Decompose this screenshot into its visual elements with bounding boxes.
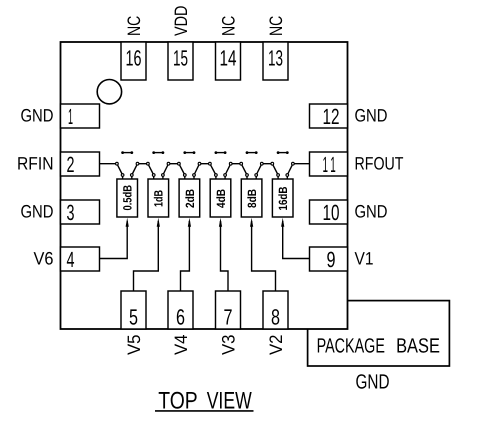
svg-text:15: 15 xyxy=(173,46,188,71)
svg-text:8dB: 8dB xyxy=(245,189,259,208)
package base label xyxy=(317,335,440,358)
node input pole stage 3 xyxy=(178,162,181,165)
switch arm output stage 4 xyxy=(225,164,231,175)
pin 4 xyxy=(61,247,100,272)
node input pole stage 4 xyxy=(209,162,212,165)
pin 15 xyxy=(168,42,193,80)
svg-text:10: 10 xyxy=(323,200,340,225)
node 0.5dB block input terminal xyxy=(121,174,124,177)
arrow into 0.5dB block xyxy=(126,218,129,227)
bypass contact dot left stage 3 xyxy=(183,151,186,154)
bypass line stage 1 xyxy=(123,152,132,154)
wire node L to RFOUT pin11 xyxy=(293,163,310,165)
pin 12 xyxy=(310,104,348,129)
svg-text:14: 14 xyxy=(220,46,237,71)
node output pole stage 4 xyxy=(229,162,232,165)
attenuator block A6 xyxy=(272,179,293,217)
node 4dB block output terminal xyxy=(224,174,227,177)
wire node H to node I xyxy=(231,163,242,165)
node 0.5dB block output terminal xyxy=(130,174,133,177)
wire stub to 16dB block input xyxy=(277,175,279,179)
TOP VIEW title xyxy=(158,387,252,414)
wire stub to 0.5dB block input xyxy=(122,175,124,179)
bypass contact dot left stage 5 xyxy=(246,151,249,154)
bypass contact dot left stage 2 xyxy=(152,151,155,154)
bypass contact dot left stage 4 xyxy=(215,151,218,154)
bypass line stage 2 xyxy=(154,152,163,154)
attenuator stage 16dB (switches + block A6) xyxy=(271,151,294,217)
svg-text:7: 7 xyxy=(224,305,233,330)
node 16dB block output terminal xyxy=(286,174,289,177)
wire stub to 1dB block output xyxy=(162,175,164,179)
wire stub to 2dB block input xyxy=(184,175,186,179)
svg-text:1dB: 1dB xyxy=(152,190,166,207)
pin 6 xyxy=(168,291,193,330)
switch arm input stage 4 xyxy=(210,164,216,175)
pin 11 xyxy=(310,152,348,177)
attenuator block A2 xyxy=(148,179,169,217)
svg-text:16: 16 xyxy=(126,46,142,71)
bypass contact dot left stage 6 xyxy=(277,151,280,154)
pin 13 xyxy=(263,42,288,80)
node 16dB block input terminal xyxy=(277,174,280,177)
arrow into 16dB block xyxy=(281,218,284,227)
svg-text:0.5dB: 0.5dB xyxy=(121,185,135,211)
svg-text:V4: V4 xyxy=(171,335,191,356)
wire stub to 1dB block input xyxy=(153,175,155,179)
switch arm input stage 6 xyxy=(272,164,278,175)
svg-text:2: 2 xyxy=(67,152,75,177)
node input pole stage 6 xyxy=(271,162,274,165)
attenuator stage 8dB (switches + block A5) xyxy=(240,151,263,217)
attenuator block A3 xyxy=(179,179,200,217)
svg-text:6: 6 xyxy=(176,305,185,330)
attenuator block A4 xyxy=(210,179,231,217)
svg-text:V5: V5 xyxy=(124,335,144,356)
svg-text:V6: V6 xyxy=(34,249,54,269)
arrow into 8dB block xyxy=(250,218,253,227)
node 8dB block input terminal xyxy=(246,174,249,177)
svg-text:RFOUT: RFOUT xyxy=(355,154,404,174)
pin 1 xyxy=(61,104,100,129)
wire stub to 0.5dB block output xyxy=(131,175,133,179)
svg-text:GND: GND xyxy=(21,106,54,126)
bypass contact dot left stage 1 xyxy=(121,151,124,154)
pin 16 xyxy=(121,42,146,80)
switch arm output stage 1 xyxy=(132,164,138,175)
switch arm input stage 5 xyxy=(241,164,247,175)
arrow into 2dB block xyxy=(188,218,191,227)
svg-text:NC: NC xyxy=(219,16,239,36)
bypass line stage 5 xyxy=(247,152,256,154)
attenuator stage 1dB (switches + block A2) xyxy=(147,151,170,217)
switch arm input stage 1 xyxy=(117,164,123,175)
wire node J to node K xyxy=(262,163,273,165)
wire V4 pin6 to 2dB block xyxy=(181,221,190,291)
node 1dB block input terminal xyxy=(152,174,155,177)
wire node D to node E xyxy=(169,163,179,165)
wire V5 pin5 to 1dB block xyxy=(134,221,159,291)
svg-text:1: 1 xyxy=(323,152,329,177)
arrow into 4dB block xyxy=(219,218,222,227)
wire stub to 4dB block input xyxy=(215,175,217,179)
svg-text:GND: GND xyxy=(355,106,388,126)
svg-text:2dB: 2dB xyxy=(183,189,197,208)
TOP VIEW underline xyxy=(155,410,254,412)
attenuator block A1 xyxy=(117,179,138,217)
svg-text:12: 12 xyxy=(323,104,340,129)
attenuator block A5 xyxy=(241,179,262,217)
node input pole stage 5 xyxy=(240,162,243,165)
node 2dB block output terminal xyxy=(193,174,196,177)
svg-text:9: 9 xyxy=(327,247,336,272)
wire stub to 8dB block input xyxy=(246,175,248,179)
node 1dB block output terminal xyxy=(162,174,165,177)
node output pole stage 1 xyxy=(136,162,139,165)
node output pole stage 6 xyxy=(292,162,295,165)
svg-text:4: 4 xyxy=(67,247,75,272)
package base box xyxy=(308,301,450,366)
arrow into 1dB block xyxy=(157,218,160,227)
svg-text:1: 1 xyxy=(330,152,336,177)
pin 1 indicator circle xyxy=(97,80,121,104)
switch arm input stage 2 xyxy=(148,164,154,175)
wire RFIN pin2 to node A xyxy=(100,163,117,165)
svg-text:NC: NC xyxy=(266,16,286,36)
node output pole stage 2 xyxy=(167,162,170,165)
bypass contact dot right stage 6 xyxy=(286,151,289,154)
wire node F to node G xyxy=(200,163,210,165)
wire V6 pin4 to 0.5dB block xyxy=(100,221,128,259)
svg-text:1: 1 xyxy=(68,104,73,129)
wire stub to 2dB block output xyxy=(193,175,195,179)
bypass contact dot right stage 3 xyxy=(193,151,196,154)
svg-text:RFIN: RFIN xyxy=(17,154,54,174)
svg-text:VDD: VDD xyxy=(171,6,191,37)
attenuator stage 4dB (switches + block A4) xyxy=(209,151,233,217)
svg-text:V2: V2 xyxy=(266,335,286,356)
node input pole stage 1 xyxy=(116,162,119,165)
wire stub to 4dB block output xyxy=(224,175,226,179)
wire V2 pin8 to 8dB block xyxy=(252,221,276,291)
pin 10 xyxy=(310,200,348,225)
node 4dB block input terminal xyxy=(215,174,218,177)
bypass line stage 3 xyxy=(185,152,194,154)
svg-text:8: 8 xyxy=(271,305,280,330)
switch arm input stage 3 xyxy=(179,164,185,175)
bypass contact dot right stage 5 xyxy=(255,151,258,154)
package outline xyxy=(61,42,348,329)
pin 8 xyxy=(263,291,288,330)
attenuator stage 2dB (switches + block A3) xyxy=(178,151,201,217)
wire stub to 8dB block output xyxy=(255,175,257,179)
switch arm output stage 3 xyxy=(194,164,200,175)
wire V1 pin9 to 16dB block xyxy=(283,221,310,259)
node output pole stage 5 xyxy=(260,162,263,165)
svg-text:5: 5 xyxy=(129,305,138,330)
pin 3 xyxy=(61,200,100,225)
node input pole stage 2 xyxy=(147,162,150,165)
node output pole stage 3 xyxy=(198,162,201,165)
attenuator stage 0.5dB (switches + block A1) xyxy=(116,151,139,217)
svg-text:BASE: BASE xyxy=(396,335,440,358)
switch arm output stage 2 xyxy=(163,164,169,175)
pin 9 xyxy=(310,247,348,272)
pin 14 xyxy=(216,42,241,80)
bypass line stage 4 xyxy=(216,152,225,154)
svg-text:16dB: 16dB xyxy=(276,186,290,210)
wire node B to node C xyxy=(138,163,148,165)
bypass contact dot right stage 2 xyxy=(162,151,165,154)
bypass contact dot right stage 1 xyxy=(130,151,133,154)
svg-text:NC: NC xyxy=(124,16,144,36)
svg-text:V1: V1 xyxy=(355,249,374,269)
node 2dB block input terminal xyxy=(183,174,186,177)
svg-text:13: 13 xyxy=(268,46,283,71)
svg-text:V3: V3 xyxy=(219,335,239,356)
svg-text:3: 3 xyxy=(67,200,75,225)
svg-text:4dB: 4dB xyxy=(214,189,228,208)
switch arm output stage 5 xyxy=(256,164,262,175)
pin 2 xyxy=(61,152,100,177)
switch arm output stage 6 xyxy=(287,164,293,175)
pin 7 xyxy=(216,291,241,330)
svg-text:GND: GND xyxy=(21,202,54,222)
svg-text:GND: GND xyxy=(356,371,390,394)
bypass contact dot right stage 4 xyxy=(224,151,227,154)
wire V3 pin7 to 4dB block xyxy=(221,221,229,291)
pin 5 xyxy=(121,291,146,330)
svg-text:PACKAGE: PACKAGE xyxy=(317,335,385,358)
bypass line stage 6 xyxy=(278,152,287,154)
svg-text:GND: GND xyxy=(355,202,388,222)
wire stub to 16dB block output xyxy=(286,175,288,179)
node 8dB block output terminal xyxy=(255,174,258,177)
